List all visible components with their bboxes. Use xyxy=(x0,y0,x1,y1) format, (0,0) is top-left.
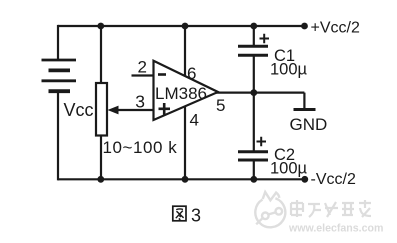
svg-text:www.elecfans.com: www.elecfans.com xyxy=(288,222,383,234)
svg-text:6: 6 xyxy=(187,64,196,83)
wire: C2 bottom lead to bottom rail xyxy=(253,161,255,180)
wire: ground stub down xyxy=(303,93,305,109)
battery B1 plate 1 (long) xyxy=(42,59,77,62)
svg-text:100µ: 100µ xyxy=(270,159,308,177)
svg-text:3: 3 xyxy=(191,205,201,225)
wire: top supply rail xyxy=(58,25,305,27)
ground symbol bar xyxy=(294,108,316,111)
junction: bottom rail / C2 xyxy=(250,176,257,183)
wire: C1 bottom lead to mid node xyxy=(253,56,255,93)
svg-text:GND: GND xyxy=(290,115,328,134)
wire: battery positive lead (top rail corner down to battery) xyxy=(57,25,59,60)
wire: bottom rail xyxy=(58,178,305,180)
svg-text:5: 5 xyxy=(216,96,225,115)
op-amp U1 LM386 triangle xyxy=(154,61,219,120)
capacitor C1 plates xyxy=(238,46,268,55)
junction: bottom rail / pot xyxy=(97,176,104,183)
junction: top rail / C1 xyxy=(250,23,257,30)
svg-text:LM386: LM386 xyxy=(155,84,207,103)
junction: top rail / pin 6 xyxy=(182,23,189,30)
svg-text:10~100 k: 10~100 k xyxy=(103,138,178,157)
potentiometer RP1 body xyxy=(96,83,107,136)
wire: C2 top lead from mid node xyxy=(253,93,255,152)
node: -Vcc/2 terminal dot xyxy=(301,176,308,183)
junction: bottom rail / pin 4 xyxy=(182,176,189,183)
junction: mid node (pin 5 / C1 / C2 / GND) xyxy=(250,89,257,96)
wire: potentiometer bottom lead xyxy=(100,136,102,181)
watermark logo circle xyxy=(255,192,285,227)
op-amp non-inverting input plus sign xyxy=(159,103,171,115)
battery B1 plate 3 (long) xyxy=(42,79,77,82)
svg-text:+Vcc/2: +Vcc/2 xyxy=(311,20,360,37)
svg-text:4: 4 xyxy=(190,111,199,130)
wire: battery negative lead down to bottom rail xyxy=(57,92,59,180)
capacitor C2 plates xyxy=(238,152,268,160)
op-amp inverting input minus sign xyxy=(158,73,166,76)
wire: output pin 5 to mid node xyxy=(216,91,254,93)
node: +Vcc/2 terminal dot xyxy=(301,23,308,30)
battery B1 plate 4 (short thick) xyxy=(49,89,71,93)
wire: potentiometer top lead xyxy=(100,26,102,84)
wire: wiper to pin 3 xyxy=(115,109,153,111)
junction: top rail / pot xyxy=(97,23,104,30)
capacitor C1 polarity plus xyxy=(260,34,270,43)
capacitor C2 polarity plus xyxy=(257,137,267,146)
svg-text:-Vcc/2: -Vcc/2 xyxy=(311,171,356,188)
watermark chinese text dian zi fa shao you xyxy=(291,200,371,217)
potentiometer wiper arrowhead xyxy=(108,106,119,115)
wire: pin 4 to bottom rail xyxy=(184,105,186,180)
wire: pin 2 stub xyxy=(132,74,154,76)
battery B1 plate 2 (short thick) xyxy=(49,69,71,73)
svg-text:2: 2 xyxy=(138,57,147,76)
wire: pin 6 from top rail xyxy=(184,26,186,77)
svg-text:3: 3 xyxy=(135,91,145,111)
wire: C1 top lead from top rail xyxy=(253,26,255,46)
svg-text:100µ: 100µ xyxy=(270,61,308,79)
svg-text:Vcc: Vcc xyxy=(64,100,94,120)
label: figure caption "tu 3" drawn glyph xyxy=(173,206,186,221)
wire: mid node to ground branch xyxy=(254,91,305,93)
